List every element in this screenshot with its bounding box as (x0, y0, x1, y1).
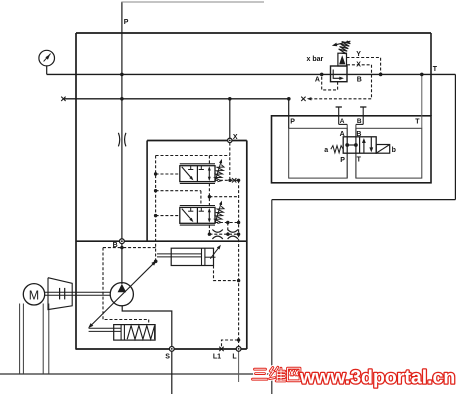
svg-text:L1: L1 (213, 354, 221, 361)
svg-text:B: B (357, 118, 362, 125)
svg-text:P: P (124, 19, 129, 26)
svg-text:x bar: x bar (307, 56, 324, 63)
svg-text:P: P (340, 157, 345, 164)
svg-text:a: a (324, 147, 328, 154)
svg-text:B: B (113, 242, 118, 249)
svg-text:X: X (356, 61, 361, 68)
svg-text:A: A (340, 131, 345, 138)
svg-text:L: L (232, 354, 237, 361)
svg-text:www.3dportal.cn: www.3dportal.cn (299, 367, 455, 389)
svg-text:b: b (392, 147, 396, 154)
svg-text:T: T (433, 66, 438, 73)
svg-text:B: B (357, 77, 362, 84)
svg-text:Y: Y (356, 51, 361, 58)
svg-text:P: P (290, 119, 295, 126)
svg-text:T: T (357, 157, 362, 164)
svg-text:B: B (356, 131, 361, 138)
svg-text:A: A (340, 118, 345, 125)
svg-text:X: X (233, 134, 238, 141)
svg-text:A: A (315, 76, 320, 83)
svg-text:S: S (165, 354, 170, 361)
svg-text:M: M (29, 288, 39, 302)
svg-text:T: T (415, 118, 420, 125)
